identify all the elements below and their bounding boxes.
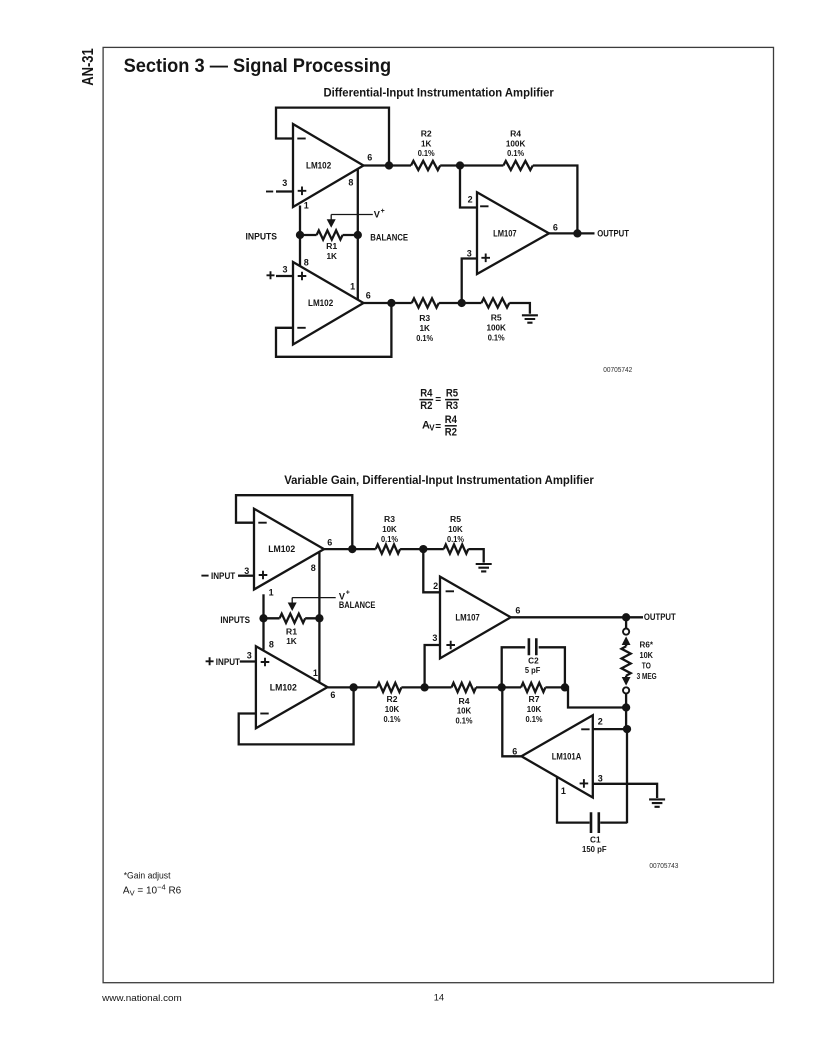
svg-text:R4: R4	[459, 696, 470, 706]
svg-text:1K: 1K	[421, 138, 432, 148]
svg-text:8: 8	[311, 563, 316, 573]
svg-text:R3: R3	[419, 313, 430, 323]
svg-text:3: 3	[282, 178, 287, 188]
svg-text:6: 6	[515, 605, 520, 615]
svg-text:2: 2	[468, 195, 473, 205]
svg-text:6: 6	[327, 538, 332, 548]
svg-text:LM102: LM102	[268, 544, 295, 554]
svg-text:R3: R3	[446, 400, 458, 412]
svg-text:1: 1	[269, 587, 274, 597]
svg-text:R5: R5	[491, 313, 502, 323]
svg-text:+: +	[381, 208, 385, 215]
svg-text:LM101A: LM101A	[552, 751, 582, 761]
svg-text:BALANCE: BALANCE	[339, 600, 376, 610]
svg-text:LM107: LM107	[493, 228, 517, 238]
svg-text:00705742: 00705742	[603, 365, 632, 374]
svg-text:10K: 10K	[385, 704, 400, 714]
svg-text:3: 3	[244, 566, 249, 576]
svg-text:0.1%: 0.1%	[418, 148, 435, 158]
svg-text:R3: R3	[384, 514, 395, 524]
svg-text:6: 6	[366, 291, 371, 301]
svg-text:3: 3	[432, 633, 437, 643]
svg-text:R1: R1	[326, 241, 337, 251]
svg-text:1K: 1K	[286, 636, 297, 646]
svg-text:Variable Gain, Differential-In: Variable Gain, Differential-Input Instru…	[284, 473, 594, 487]
svg-text:=: =	[435, 395, 441, 406]
svg-text:0.1%: 0.1%	[526, 714, 543, 724]
svg-text:*Gain adjust: *Gain adjust	[124, 870, 171, 881]
svg-text:R4: R4	[420, 388, 433, 400]
svg-text:C2: C2	[528, 655, 539, 665]
svg-text:150 pF: 150 pF	[582, 844, 607, 854]
svg-text:R5: R5	[450, 514, 461, 524]
svg-text:R4: R4	[445, 414, 458, 426]
svg-text:3: 3	[247, 650, 252, 660]
svg-text:AV = 10−4 R6: AV = 10−4 R6	[123, 883, 182, 898]
svg-text:100K: 100K	[486, 322, 506, 332]
svg-text:INPUT: INPUT	[216, 657, 241, 667]
svg-text:OUTPUT: OUTPUT	[597, 229, 629, 239]
svg-text:R2: R2	[387, 694, 398, 704]
svg-text:0.1%: 0.1%	[381, 534, 398, 544]
svg-text:C1: C1	[590, 834, 601, 844]
svg-text:Section 3 — Signal Processing: Section 3 — Signal Processing	[124, 55, 392, 77]
svg-text:5 pF: 5 pF	[525, 665, 540, 675]
svg-text:3: 3	[467, 249, 472, 259]
svg-text:R2: R2	[420, 400, 432, 412]
svg-text:R7: R7	[529, 694, 540, 704]
svg-text:3 MEG: 3 MEG	[637, 671, 657, 681]
svg-text:1: 1	[304, 200, 309, 210]
svg-text:BALANCE: BALANCE	[370, 233, 408, 243]
svg-text:10K: 10K	[640, 650, 654, 660]
svg-text:0.1%: 0.1%	[507, 148, 524, 158]
svg-text:6: 6	[512, 746, 517, 756]
svg-text:LM102: LM102	[306, 160, 331, 170]
svg-text:10K: 10K	[448, 524, 463, 534]
svg-text:100K: 100K	[506, 138, 526, 148]
svg-text:1K: 1K	[326, 251, 337, 261]
svg-text:LM107: LM107	[455, 613, 479, 623]
svg-text:6: 6	[553, 222, 558, 232]
svg-text:R2: R2	[445, 426, 457, 438]
svg-text:0.1%: 0.1%	[488, 332, 505, 342]
svg-text:R6*: R6*	[640, 640, 654, 650]
svg-text:+: +	[346, 590, 350, 597]
svg-text:1: 1	[350, 281, 355, 291]
svg-text:R4: R4	[510, 128, 521, 138]
svg-text:Differential-Input Instrumenta: Differential-Input Instrumentation Ampli…	[324, 86, 554, 100]
svg-text:2: 2	[433, 581, 438, 591]
svg-text:10K: 10K	[382, 524, 397, 534]
svg-text:14: 14	[434, 992, 444, 1003]
svg-text:3: 3	[282, 265, 287, 275]
svg-text:8: 8	[269, 640, 274, 650]
svg-text:6: 6	[330, 690, 335, 700]
svg-text:INPUTS: INPUTS	[220, 615, 250, 625]
svg-text:AN-31: AN-31	[80, 48, 97, 86]
svg-text:00705743: 00705743	[649, 861, 678, 870]
svg-text:0.1%: 0.1%	[384, 714, 401, 724]
svg-text:1: 1	[313, 668, 318, 678]
svg-text:OUTPUT: OUTPUT	[644, 612, 676, 622]
svg-text:2: 2	[598, 717, 603, 727]
svg-text:LM102: LM102	[308, 298, 333, 308]
svg-text:R5: R5	[446, 388, 458, 400]
svg-text:1K: 1K	[419, 323, 430, 333]
svg-text:1: 1	[561, 786, 566, 796]
svg-text:6: 6	[367, 152, 372, 162]
svg-text:0.1%: 0.1%	[416, 333, 433, 343]
svg-text:=: =	[435, 422, 441, 433]
svg-text:3: 3	[598, 773, 603, 783]
svg-text:0.1%: 0.1%	[456, 716, 473, 726]
svg-text:8: 8	[304, 257, 309, 267]
svg-text:LM102: LM102	[270, 683, 297, 693]
svg-text:R2: R2	[421, 128, 432, 138]
svg-text:10K: 10K	[457, 706, 472, 716]
svg-text:10K: 10K	[527, 704, 542, 714]
svg-text:TO: TO	[642, 660, 651, 670]
svg-text:INPUT: INPUT	[211, 571, 236, 581]
svg-text:www.national.com: www.national.com	[101, 992, 182, 1003]
svg-text:8: 8	[348, 178, 353, 188]
svg-text:INPUTS: INPUTS	[246, 231, 278, 241]
svg-text:R1: R1	[286, 626, 297, 636]
svg-text:0.1%: 0.1%	[447, 534, 464, 544]
